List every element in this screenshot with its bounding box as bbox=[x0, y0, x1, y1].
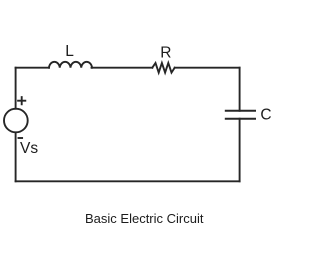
voltage source Vs circle bbox=[4, 109, 28, 133]
wire right lower bbox=[239, 119, 241, 182]
inductor L bbox=[49, 62, 92, 68]
wire bottom bbox=[16, 180, 240, 182]
minus polarity mark bbox=[19, 137, 23, 139]
wire top-middle segment bbox=[92, 67, 153, 69]
wire top-left segment bbox=[16, 67, 49, 69]
svg-text:R: R bbox=[160, 45, 171, 62]
plus polarity mark bbox=[18, 97, 25, 104]
wire right upper bbox=[239, 68, 241, 111]
wire top-right segment bbox=[175, 67, 240, 69]
wire left upper bbox=[15, 68, 17, 109]
capacitor C top plate bbox=[226, 110, 255, 112]
svg-text:Vs: Vs bbox=[20, 140, 38, 157]
svg-text:Basic Electric Circuit: Basic Electric Circuit bbox=[85, 211, 204, 226]
resistor R bbox=[152, 63, 174, 73]
svg-text:L: L bbox=[65, 43, 74, 60]
wire left lower bbox=[15, 132, 17, 181]
svg-text:C: C bbox=[260, 107, 271, 124]
capacitor C bottom plate bbox=[226, 118, 255, 120]
